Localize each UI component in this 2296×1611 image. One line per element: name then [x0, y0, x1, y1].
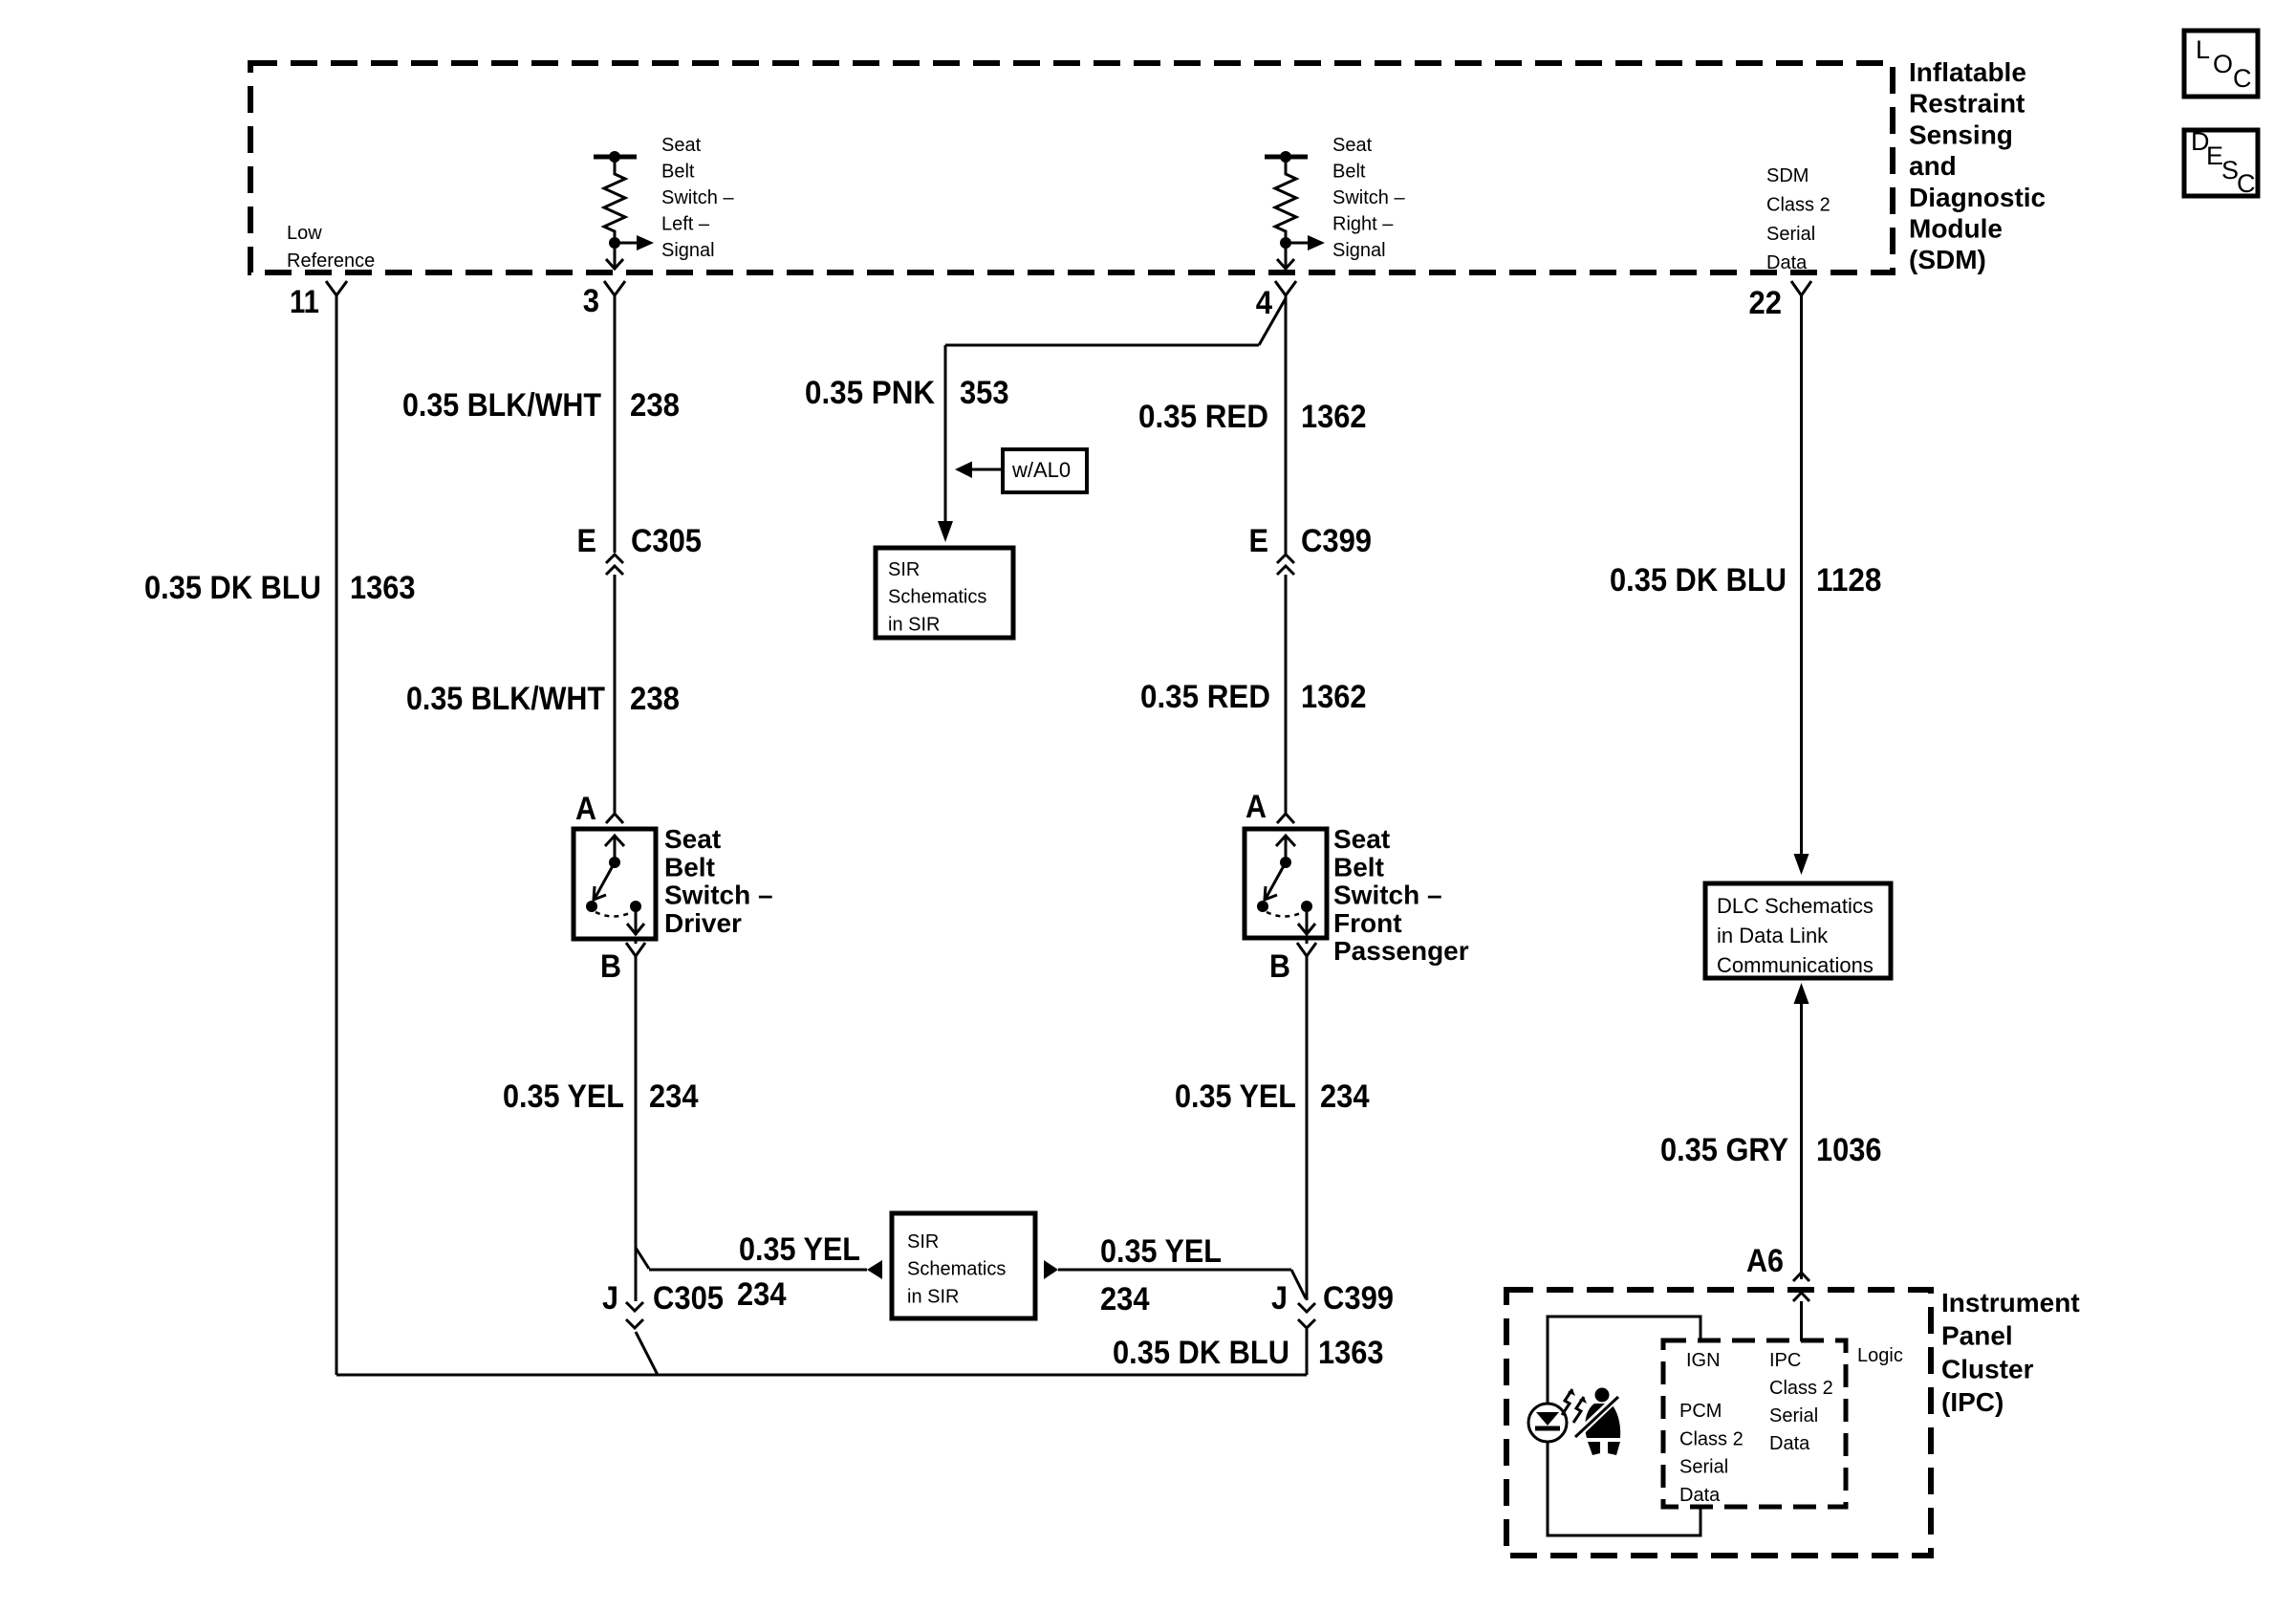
connector E C305: [577, 523, 703, 575]
svg-text:3: 3: [583, 283, 599, 319]
svg-text:0.35 YEL: 0.35 YEL: [739, 1231, 860, 1268]
svg-text:A: A: [1245, 789, 1267, 825]
svg-text:1362: 1362: [1301, 399, 1367, 435]
SDM module dashed box: [250, 63, 1893, 272]
svg-text:C: C: [2233, 64, 2252, 93]
svg-text:B: B: [600, 948, 621, 985]
svg-text:C305: C305: [631, 523, 702, 559]
SIR schematics box (top): [876, 548, 1013, 638]
svg-text:234: 234: [649, 1078, 699, 1115]
seat belt switch right resistor (in SDM): [1265, 151, 1325, 269]
svg-text:E: E: [1249, 523, 1269, 559]
svg-text:0.35 YEL: 0.35 YEL: [1100, 1233, 1222, 1270]
switch mechanism driver: [586, 836, 644, 935]
svg-text:C399: C399: [1323, 1280, 1394, 1317]
IPC module dashed box: [1506, 1290, 1931, 1556]
svg-text:0.35 RED: 0.35 RED: [1138, 399, 1268, 435]
svg-text:IGN: IGN: [1686, 1350, 1721, 1371]
wire pin4 to C399: [1285, 294, 1288, 554]
svg-text:1036: 1036: [1816, 1132, 1882, 1168]
pin A connector passenger: [1277, 814, 1294, 823]
switch mechanism passenger: [1257, 836, 1315, 935]
wire passenger B down to J C399: [1306, 955, 1309, 1300]
w/AL0 tag box: [955, 449, 1087, 492]
wire LED to PCM: [1548, 1442, 1700, 1535]
svg-text:0.35 RED: 0.35 RED: [1140, 679, 1270, 715]
connector J C305: [602, 1280, 724, 1328]
svg-text:J: J: [1271, 1280, 1288, 1317]
LED indicator: [1528, 1404, 1567, 1442]
svg-text:A: A: [575, 791, 596, 827]
low reference wire (0.35 DK BLU 1363): [336, 294, 338, 1375]
svg-text:234: 234: [1100, 1281, 1150, 1317]
svg-text:234: 234: [737, 1276, 787, 1313]
svg-text:11: 11: [290, 284, 319, 320]
low reference bus bottom wire: [336, 1374, 1307, 1377]
svg-text:0.35 BLK/WHT: 0.35 BLK/WHT: [406, 681, 605, 717]
seat belt switch left resistor (in SDM): [594, 151, 654, 269]
svg-text:C305: C305: [653, 1280, 724, 1317]
svg-text:E: E: [577, 523, 597, 559]
seat belt switch driver box: [574, 829, 656, 939]
pin A6 connector: [1793, 1273, 1809, 1301]
svg-text:0.35 YEL: 0.35 YEL: [503, 1078, 624, 1115]
seat belt telltale icon: [1575, 1388, 1622, 1456]
pin B connector driver: [626, 939, 645, 956]
svg-text:0.35 PNK: 0.35 PNK: [805, 375, 935, 411]
pin B connector passenger: [1297, 938, 1316, 956]
DLC schematics box: [1705, 883, 1891, 978]
wire C305 to driver switch A: [614, 575, 617, 813]
svg-text:C: C: [2237, 169, 2256, 198]
branch to SIR (driver side): [636, 1248, 882, 1279]
DESC reference box: [2184, 127, 2258, 198]
svg-text:0.35 BLK/WHT: 0.35 BLK/WHT: [402, 387, 601, 424]
svg-text:0.35 YEL: 0.35 YEL: [1175, 1078, 1296, 1115]
svg-text:0.35 GRY: 0.35 GRY: [1660, 1132, 1788, 1168]
svg-text:1362: 1362: [1301, 679, 1367, 715]
pin A connector driver: [606, 814, 623, 823]
svg-text:238: 238: [630, 387, 680, 424]
pin 3 connector: [604, 281, 625, 295]
svg-text:238: 238: [630, 681, 680, 717]
seat belt switch passenger box: [1245, 829, 1327, 938]
svg-text:353: 353: [960, 375, 1009, 411]
pin 22 connector: [1791, 281, 1811, 295]
svg-text:1128: 1128: [1816, 562, 1882, 599]
svg-text:234: 234: [1320, 1078, 1370, 1115]
wire LED to IGN: [1548, 1317, 1700, 1404]
pin 4 connector: [1275, 281, 1296, 295]
svg-text:0.35 DK BLU: 0.35 DK BLU: [144, 570, 321, 606]
wire pin 22 to DLC box: [1794, 294, 1809, 875]
PNK branch wire: [938, 298, 1286, 542]
connector E C399: [1249, 523, 1373, 575]
pin 11 connector: [326, 281, 347, 295]
IPC logic dashed box: [1663, 1340, 1846, 1507]
svg-text:22: 22: [1749, 285, 1783, 321]
svg-text:Logic: Logic: [1857, 1345, 1903, 1366]
wire DLC box to A6: [1794, 983, 1809, 1279]
wire driver B down to J C305: [635, 955, 638, 1301]
wire C399 to passenger switch A: [1285, 575, 1288, 813]
svg-text:O: O: [2213, 50, 2233, 78]
svg-text:1363: 1363: [350, 570, 416, 606]
svg-text:w/AL0: w/AL0: [1011, 458, 1071, 482]
svg-text:4: 4: [1256, 285, 1272, 321]
jog from J C305 to low ref bus: [636, 1332, 658, 1375]
connector J C399: [1271, 1280, 1394, 1328]
LED light arrows: [1562, 1389, 1587, 1423]
wire A6 into IPC logic box: [1800, 1301, 1803, 1341]
svg-text:0.35 DK BLU: 0.35 DK BLU: [1113, 1335, 1289, 1371]
svg-text:J: J: [602, 1280, 618, 1317]
wire J C399 to low ref bus: [1306, 1329, 1309, 1375]
LOC reference box: [2184, 31, 2258, 97]
svg-text:C399: C399: [1301, 523, 1372, 559]
SIR schematics box (bottom): [892, 1213, 1035, 1318]
svg-text:0.35 DK BLU: 0.35 DK BLU: [1610, 562, 1787, 599]
wire SIR box to J C399: [1044, 1260, 1306, 1298]
svg-text:A6: A6: [1746, 1243, 1784, 1279]
svg-text:L: L: [2196, 35, 2210, 64]
svg-text:1363: 1363: [1318, 1335, 1384, 1371]
wire pin3 to C305: [614, 294, 617, 553]
svg-text:B: B: [1269, 948, 1290, 985]
